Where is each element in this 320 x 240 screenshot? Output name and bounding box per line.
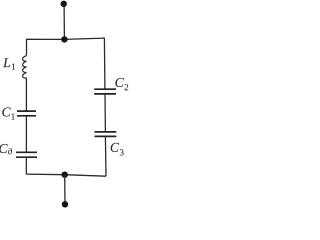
capacitor C3	[95, 131, 117, 133]
wire left upper	[26, 39, 28, 56]
label Cd	[0, 144, 8, 153]
wire top terminal lead	[63, 4, 65, 39]
wire right lower	[104, 136, 107, 176]
wire bottom terminal lead	[64, 175, 66, 204]
node junction bottom	[61, 172, 67, 178]
capacitor C2	[94, 88, 116, 90]
capacitor C1	[17, 110, 36, 112]
wire top horizontal	[27, 38, 105, 39]
label C3	[111, 143, 119, 152]
wire bottom horizontal	[26, 174, 106, 176]
terminal dot top	[61, 1, 67, 7]
wire L1 to C1	[25, 78, 27, 111]
node junction top	[61, 36, 67, 42]
wire right upper	[103, 38, 106, 90]
label C2	[115, 78, 123, 87]
label L1	[3, 58, 10, 67]
terminal dot bottom	[62, 201, 68, 207]
wire C2 to C3	[104, 94, 106, 132]
label C1	[2, 107, 10, 116]
inductor L1	[23, 56, 27, 78]
capacitor Cd	[16, 151, 37, 153]
wire left lower	[25, 157, 27, 174]
wire C1 to Cd	[25, 116, 27, 153]
